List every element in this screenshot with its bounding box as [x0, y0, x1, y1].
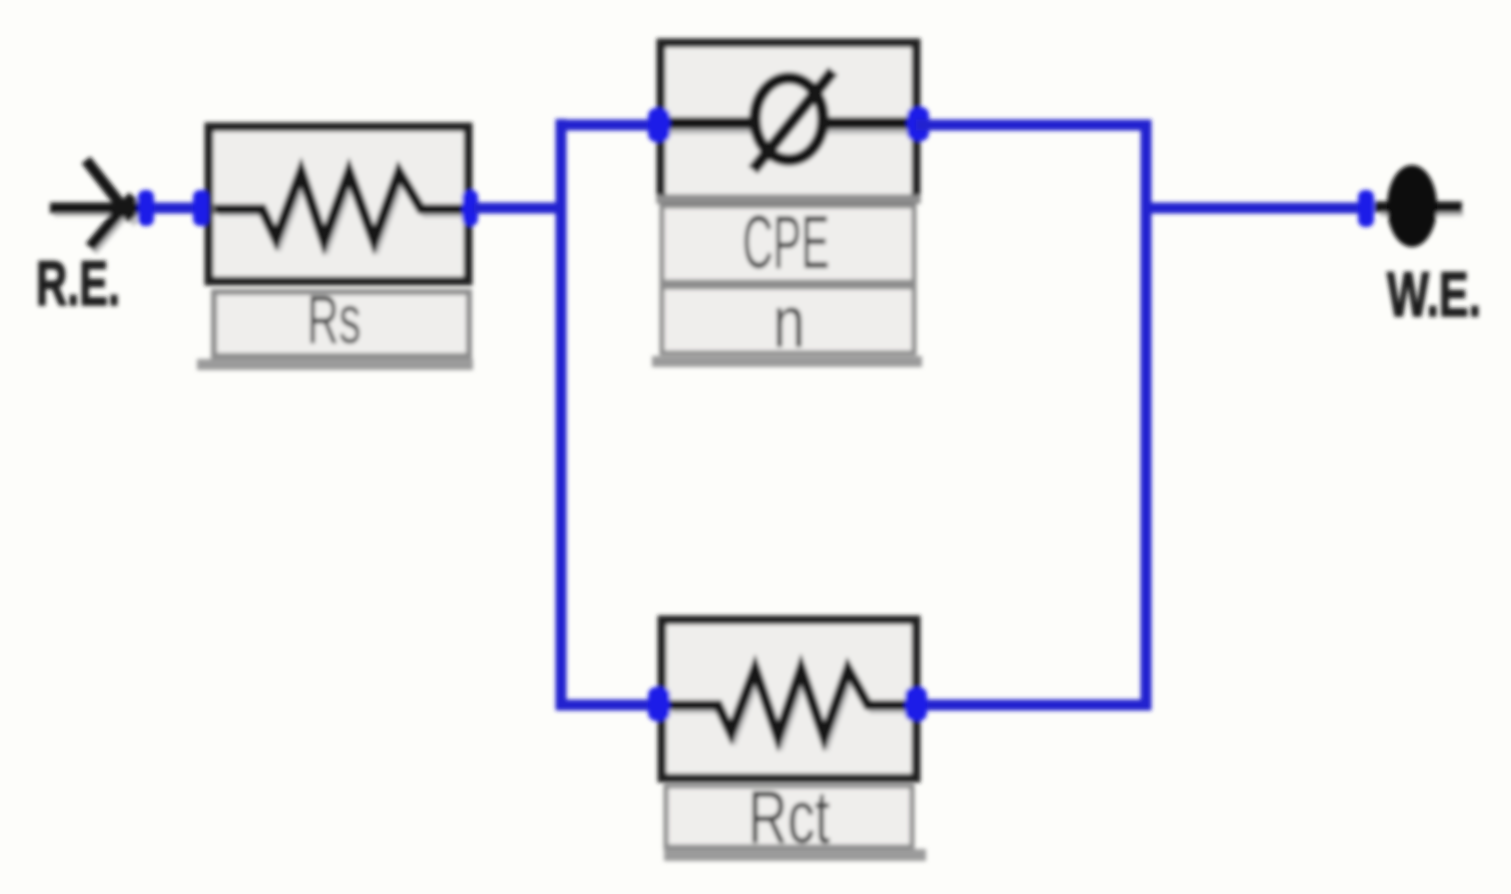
resistor Rct zigzag [668, 669, 912, 737]
wire through CPE shadow [664, 128, 914, 134]
wire R.E. to Rs [146, 203, 208, 214]
svg-text:Rs: Rs [307, 281, 361, 358]
node CPE right [907, 107, 929, 141]
resistor Rct label box [666, 786, 912, 847]
resistor Rs zigzag shadow [218, 177, 466, 246]
CPE phi slash [753, 71, 833, 170]
capacitor CPE box shadow [652, 356, 922, 367]
wire right loop (top, right vertical, bottom) [916, 125, 1146, 705]
resistor Rs box shadow [197, 359, 473, 370]
svg-text:n: n [773, 282, 805, 363]
wire to W.E. [1146, 203, 1366, 214]
terminal R.E. arrow shadow [54, 165, 140, 252]
resistor Rs zigzag [214, 172, 464, 241]
svg-text:CPE: CPE [743, 200, 830, 284]
node Rct left [648, 687, 670, 721]
svg-text:W.E.: W.E. [1387, 260, 1481, 330]
node at W.E. [1358, 190, 1374, 227]
capacitor CPE label box [662, 206, 914, 282]
node Rs right [462, 190, 478, 226]
node Rct right [905, 687, 927, 721]
node Rs left [193, 190, 209, 226]
svg-text:R.E.: R.E. [36, 249, 120, 319]
CPE phi symbol [755, 78, 823, 160]
node at R.E. tip [138, 190, 154, 226]
terminal W.E. electrode dot [1387, 165, 1437, 247]
resistor Rct zigzag shadow [672, 674, 916, 742]
resistor Rct main box [662, 620, 916, 778]
wire left vertical branch [556, 119, 567, 710]
capacitor CPE main box [661, 43, 916, 199]
wire bottom branch left [556, 700, 660, 711]
wire Rs to branch point [474, 203, 566, 214]
resistor Rs main box [209, 127, 468, 281]
svg-text:Rct: Rct [748, 775, 830, 859]
resistor Rct box shadow [664, 849, 926, 861]
capacitor CPE main box bottom gray edge [657, 195, 920, 203]
capacitor CPE n label box [662, 287, 914, 353]
terminal W.E. line shadow [1380, 210, 1463, 217]
terminal W.E. line [1375, 202, 1462, 213]
resistor Rs label box [214, 292, 469, 356]
wire top branch left [556, 120, 660, 131]
wire through CPE [660, 117, 916, 129]
node CPE left [648, 108, 670, 142]
terminal R.E. arrow [50, 160, 138, 247]
